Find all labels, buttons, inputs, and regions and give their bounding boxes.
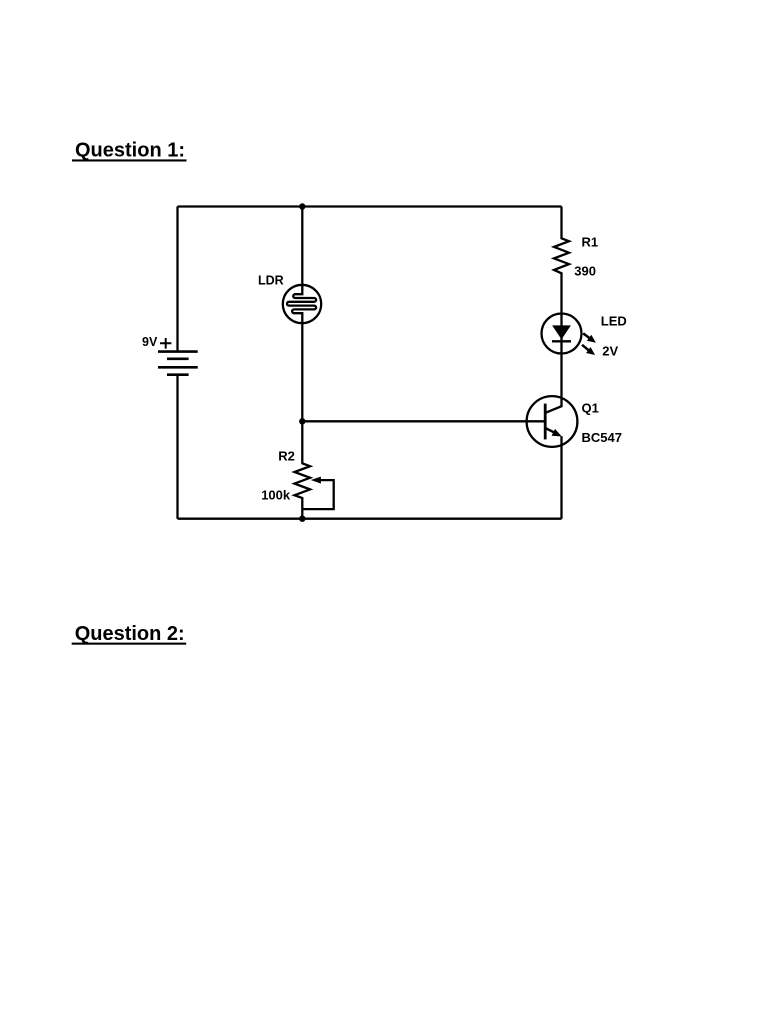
svg-text:390: 390 [574,264,596,279]
svg-text:R2: R2 [278,448,295,463]
svg-text:BC547: BC547 [582,430,622,445]
svg-text:Q1: Q1 [582,401,599,416]
svg-text:2V: 2V [602,344,618,359]
svg-text:9V: 9V [142,335,158,349]
svg-text:LDR: LDR [258,274,284,288]
svg-text:LED: LED [601,314,627,329]
svg-text:100k: 100k [261,487,291,502]
svg-text:Question 1:: Question 1: [75,140,185,162]
svg-text:R1: R1 [582,234,599,249]
svg-text:Question 2:: Question 2: [75,623,185,645]
